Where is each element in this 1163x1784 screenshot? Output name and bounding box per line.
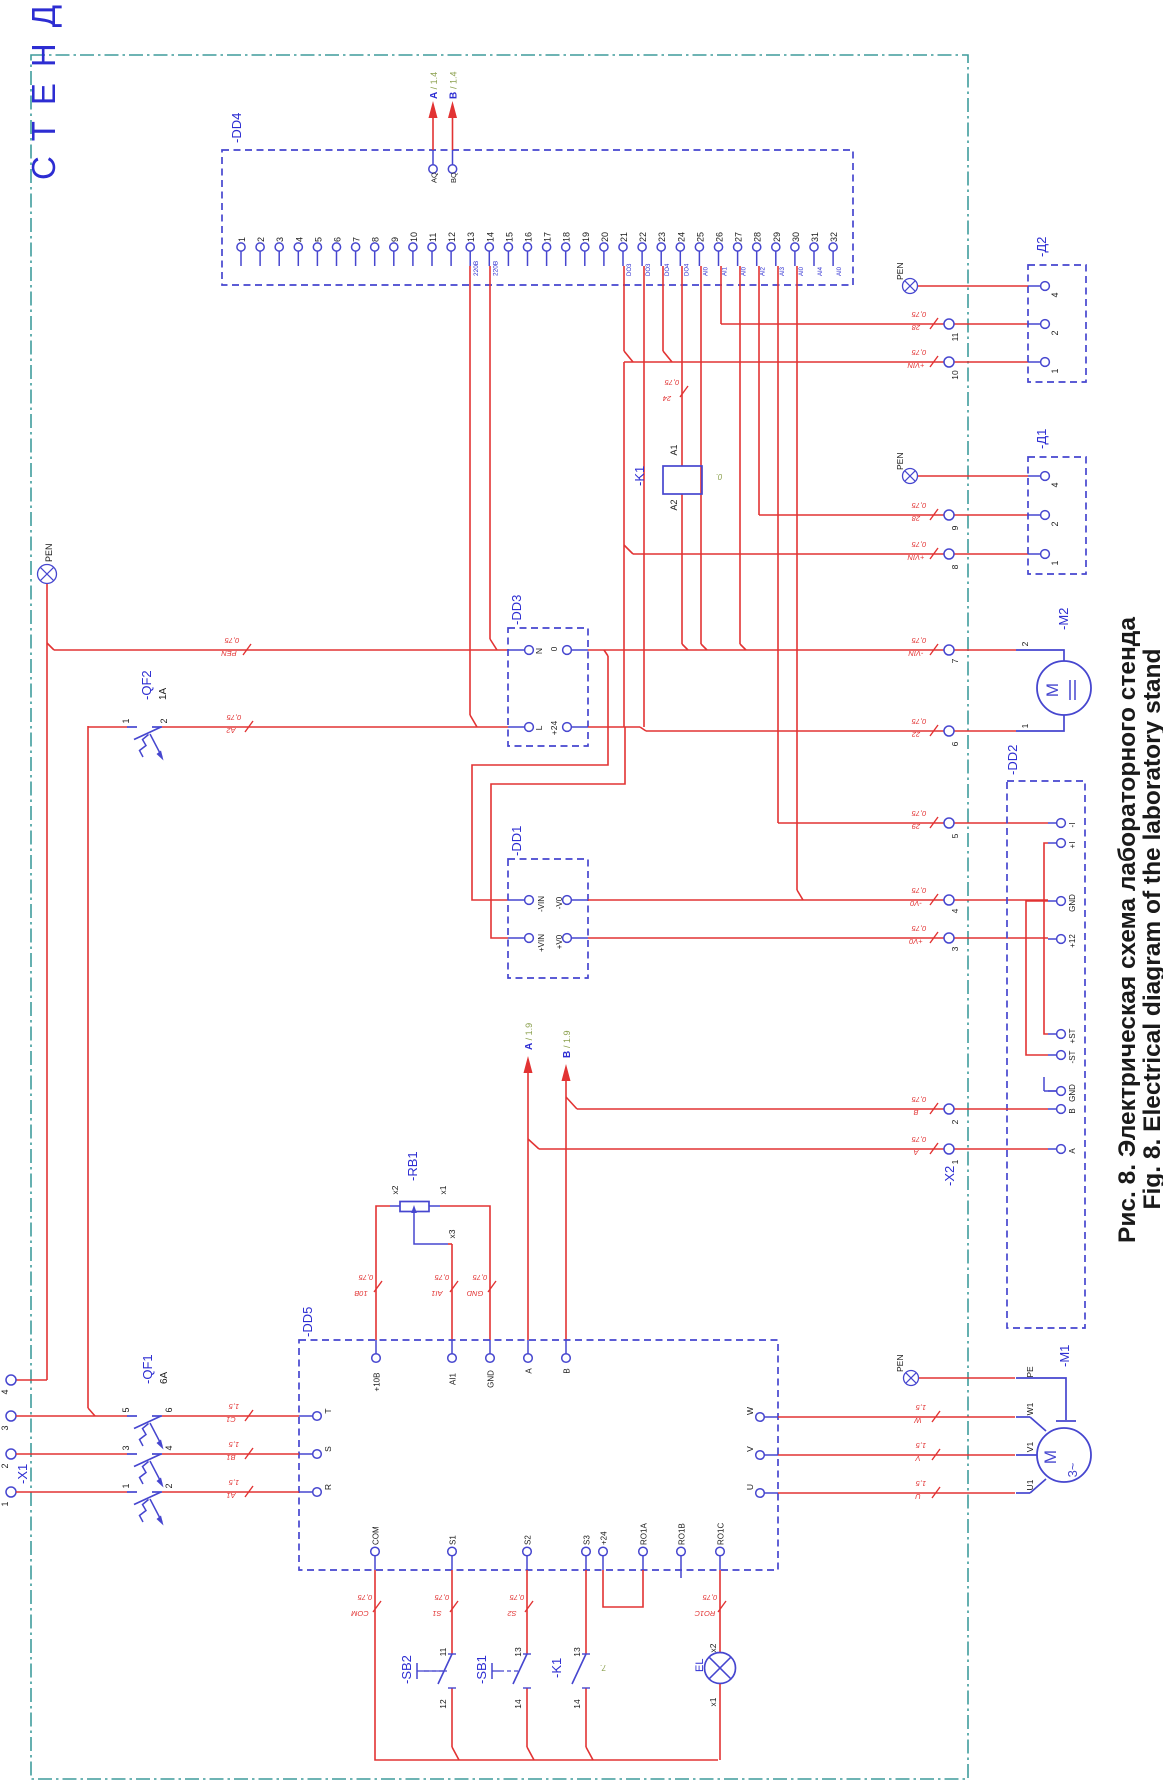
svg-text:B: B <box>1068 1108 1077 1113</box>
svg-text:1,5: 1,5 <box>228 1478 239 1487</box>
svg-text:22: 22 <box>638 232 648 242</box>
svg-text:DO3: DO3 <box>646 263 652 276</box>
svg-text:+V0: +V0 <box>555 934 564 949</box>
svg-text:13: 13 <box>466 232 476 242</box>
svg-text:+V0: +V0 <box>908 937 922 946</box>
svg-text:4: 4 <box>294 237 304 242</box>
svg-text:0,75: 0,75 <box>911 540 926 549</box>
svg-text:0,75: 0,75 <box>911 501 926 510</box>
svg-text:GND: GND <box>466 1289 483 1298</box>
svg-text:-V0: -V0 <box>909 899 922 908</box>
svg-text:28: 28 <box>753 232 763 242</box>
svg-text:B / 1.9: B / 1.9 <box>562 1030 573 1058</box>
svg-text:9: 9 <box>390 237 400 242</box>
svg-text:RO1B: RO1B <box>678 1523 687 1545</box>
svg-text:12: 12 <box>447 232 457 242</box>
svg-text:0,75: 0,75 <box>664 378 679 387</box>
svg-text:7: 7 <box>352 237 362 242</box>
svg-text:PEN: PEN <box>221 649 237 658</box>
svg-text:x2: x2 <box>708 1643 718 1652</box>
svg-text:2: 2 <box>256 237 266 242</box>
svg-text:+24: +24 <box>549 721 559 736</box>
svg-text:AQ: AQ <box>430 172 439 183</box>
svg-text:2: 2 <box>1020 641 1030 646</box>
svg-text:1,5: 1,5 <box>228 1402 239 1411</box>
svg-text:24: 24 <box>676 232 686 242</box>
svg-text:+12: +12 <box>1068 934 1077 948</box>
svg-text:0.: 0. <box>716 472 723 481</box>
svg-text:3: 3 <box>121 1445 131 1450</box>
svg-text:Рис. 8. Электрическая схема ла: Рис. 8. Электрическая схема лабораторног… <box>1114 617 1141 1243</box>
svg-text:0,75: 0,75 <box>702 1593 717 1602</box>
svg-text:S1: S1 <box>432 1609 441 1618</box>
svg-text:3: 3 <box>275 237 285 242</box>
svg-text:1,5: 1,5 <box>228 1440 239 1449</box>
svg-text:32: 32 <box>829 232 839 242</box>
svg-text:0,75: 0,75 <box>911 348 926 357</box>
svg-text:2: 2 <box>164 1483 174 1488</box>
svg-text:A1: A1 <box>669 444 679 455</box>
svg-text:6: 6 <box>950 741 960 746</box>
svg-text:1: 1 <box>237 237 247 242</box>
svg-text:RO1C: RO1C <box>694 1609 715 1618</box>
svg-text:AI1: AI1 <box>449 1372 458 1385</box>
svg-text:0,75: 0,75 <box>434 1593 449 1602</box>
svg-text:21: 21 <box>619 232 629 242</box>
svg-text:3~: 3~ <box>1065 1462 1080 1477</box>
svg-text:0,75: 0,75 <box>911 809 926 818</box>
svg-text:AI2: AI2 <box>761 266 767 276</box>
svg-text:EL: EL <box>694 1659 706 1672</box>
svg-text:AI0: AI0 <box>837 266 843 276</box>
svg-text:5: 5 <box>121 1407 131 1412</box>
svg-text:8: 8 <box>371 237 381 242</box>
svg-text:-QF1: -QF1 <box>140 1354 155 1384</box>
svg-text:13: 13 <box>513 1647 523 1657</box>
svg-text:6: 6 <box>333 237 343 242</box>
svg-text:PEN: PEN <box>895 1355 905 1372</box>
svg-text:A / 1.9: A / 1.9 <box>524 1023 535 1050</box>
svg-text:4: 4 <box>1050 482 1060 487</box>
svg-text:-Д2: -Д2 <box>1034 237 1049 257</box>
svg-text:A: A <box>525 1368 534 1374</box>
svg-text:28: 28 <box>911 514 921 523</box>
svg-text:-QF2: -QF2 <box>139 670 154 700</box>
svg-text:5: 5 <box>313 237 323 242</box>
svg-text:+24: +24 <box>600 1531 609 1545</box>
svg-text:Fig. 8. Electrical diagram of: Fig. 8. Electrical diagram of the labora… <box>1139 649 1163 1210</box>
svg-text:19: 19 <box>581 232 591 242</box>
svg-text:5: 5 <box>950 833 960 838</box>
svg-text:11: 11 <box>950 332 960 341</box>
svg-text:-X1: -X1 <box>15 1464 30 1484</box>
svg-text:C1: C1 <box>226 1415 236 1424</box>
svg-text:+ST: +ST <box>1068 1028 1077 1043</box>
svg-text:11: 11 <box>428 233 438 242</box>
svg-text:0,75: 0,75 <box>911 636 926 645</box>
svg-text:1: 1 <box>1050 560 1060 565</box>
svg-text:0,75: 0,75 <box>509 1593 524 1602</box>
svg-text:GND: GND <box>1068 1084 1077 1102</box>
svg-text:10В: 10В <box>354 1289 367 1298</box>
svg-text:4: 4 <box>164 1445 174 1450</box>
svg-text:0,75: 0,75 <box>226 713 241 722</box>
svg-text:GND: GND <box>487 1370 496 1388</box>
svg-text:A1: A1 <box>226 1491 236 1500</box>
svg-text:V: V <box>745 1446 755 1452</box>
svg-text:AI0: AI0 <box>703 266 709 276</box>
svg-text:-X2: -X2 <box>942 1166 957 1186</box>
svg-text:W1: W1 <box>1025 1402 1035 1415</box>
svg-text:29: 29 <box>911 822 921 831</box>
svg-text:S2: S2 <box>507 1609 517 1618</box>
svg-text:20: 20 <box>600 232 610 242</box>
svg-text:28: 28 <box>911 323 921 332</box>
svg-text:-K1: -K1 <box>549 1658 564 1678</box>
svg-text:8: 8 <box>950 564 960 569</box>
svg-text:AI3: AI3 <box>780 266 786 276</box>
svg-text:x3: x3 <box>447 1229 457 1238</box>
svg-text:7: 7 <box>950 658 960 663</box>
svg-text:AI0: AI0 <box>799 266 805 276</box>
svg-text:0,75: 0,75 <box>224 636 239 645</box>
svg-text:12: 12 <box>438 1699 448 1709</box>
svg-text:DO4: DO4 <box>665 263 671 276</box>
svg-text:+VIN: +VIN <box>907 553 924 562</box>
svg-text:14: 14 <box>513 1699 523 1709</box>
svg-text:B / 1.4: B / 1.4 <box>449 71 460 99</box>
svg-text:10: 10 <box>409 232 419 242</box>
svg-text:-V0: -V0 <box>555 896 564 909</box>
svg-text:-K1: -K1 <box>632 466 647 486</box>
svg-text:x1: x1 <box>708 1697 718 1706</box>
svg-text:А2: А2 <box>226 726 237 735</box>
svg-text:RO1C: RO1C <box>717 1523 726 1545</box>
svg-text:+I: +I <box>1068 842 1077 849</box>
svg-text:-VIN: -VIN <box>908 649 924 658</box>
svg-text:1,5: 1,5 <box>915 1479 926 1488</box>
svg-text:4: 4 <box>950 908 960 913</box>
svg-text:S2: S2 <box>524 1535 533 1545</box>
svg-text:A: A <box>1068 1148 1077 1154</box>
svg-text:14: 14 <box>572 1699 582 1709</box>
svg-text:6: 6 <box>164 1407 174 1412</box>
svg-text:AI4: AI4 <box>818 266 824 276</box>
svg-text:B1: B1 <box>226 1453 235 1462</box>
svg-text:18: 18 <box>562 232 572 242</box>
svg-text:1: 1 <box>0 1501 10 1506</box>
svg-text:B: B <box>563 1368 572 1373</box>
svg-text:AI1: AI1 <box>431 1289 443 1298</box>
svg-text:-SB2: -SB2 <box>399 1655 414 1684</box>
svg-text:PEN: PEN <box>895 263 905 280</box>
svg-text:1: 1 <box>121 1483 131 1488</box>
svg-text:COM: COM <box>351 1609 369 1618</box>
svg-text:T: T <box>323 1408 333 1413</box>
svg-text:26: 26 <box>715 232 725 242</box>
svg-text:2: 2 <box>159 718 169 723</box>
svg-text:29: 29 <box>772 232 782 242</box>
svg-text:RO1A: RO1A <box>640 1523 649 1545</box>
svg-text:PE: PE <box>1025 1366 1035 1378</box>
svg-text:17: 17 <box>543 232 553 242</box>
svg-text:0,75: 0,75 <box>357 1593 372 1602</box>
svg-text:+VIN: +VIN <box>907 361 924 370</box>
svg-text:A / 1.4: A / 1.4 <box>429 72 440 99</box>
svg-text:-DD2: -DD2 <box>1005 745 1020 775</box>
svg-text:-RB1: -RB1 <box>405 1151 420 1181</box>
svg-text:-Д1: -Д1 <box>1034 429 1049 449</box>
svg-text:V1: V1 <box>1025 1442 1035 1453</box>
svg-text:27: 27 <box>734 232 744 242</box>
svg-text:30: 30 <box>791 232 801 242</box>
svg-text:220В: 220В <box>492 261 499 276</box>
svg-text:11: 11 <box>438 1647 448 1656</box>
svg-text:22: 22 <box>911 730 921 739</box>
svg-text:1: 1 <box>950 1159 960 1164</box>
svg-text:DO3: DO3 <box>627 263 633 276</box>
svg-text:1: 1 <box>1050 368 1060 373</box>
svg-text:AI0: AI0 <box>742 266 748 276</box>
svg-text:0,75: 0,75 <box>472 1273 487 1282</box>
svg-text:3: 3 <box>950 946 960 951</box>
svg-text:x2: x2 <box>390 1185 400 1194</box>
svg-text:0,75: 0,75 <box>434 1273 449 1282</box>
svg-text:-DD1: -DD1 <box>509 826 524 856</box>
svg-text:1: 1 <box>1020 723 1030 728</box>
svg-text:3: 3 <box>0 1425 10 1430</box>
svg-text:+VIN: +VIN <box>537 934 546 952</box>
svg-text:0,75: 0,75 <box>911 886 926 895</box>
svg-text:2: 2 <box>0 1463 10 1468</box>
svg-text:25: 25 <box>695 232 705 242</box>
svg-text:-DD3: -DD3 <box>509 595 524 625</box>
svg-text:-M2: -M2 <box>1056 608 1071 630</box>
svg-text:24: 24 <box>663 394 672 403</box>
svg-text:-DD4: -DD4 <box>229 113 244 143</box>
svg-text:U: U <box>745 1484 755 1490</box>
svg-text:S1: S1 <box>449 1535 458 1545</box>
svg-text:0: 0 <box>549 646 559 651</box>
svg-text:GND: GND <box>1068 894 1077 912</box>
svg-text:4: 4 <box>0 1389 10 1394</box>
svg-text:1,5: 1,5 <box>915 1441 926 1450</box>
svg-text:AI1: AI1 <box>723 266 729 276</box>
svg-text:2: 2 <box>1050 521 1060 526</box>
svg-text:1А: 1А <box>158 687 169 700</box>
svg-text:0,75: 0,75 <box>358 1273 373 1282</box>
svg-text:U: U <box>915 1492 921 1501</box>
svg-text:+10В: +10В <box>373 1373 382 1392</box>
svg-text:PEN: PEN <box>895 453 905 470</box>
svg-text:0,75: 0,75 <box>911 310 926 319</box>
svg-text:0,75: 0,75 <box>911 1135 926 1144</box>
svg-text:13: 13 <box>572 1647 582 1657</box>
svg-text:23: 23 <box>657 232 667 242</box>
svg-text:16: 16 <box>524 232 534 242</box>
svg-text:0,75: 0,75 <box>911 717 926 726</box>
svg-text:0,75: 0,75 <box>911 1095 926 1104</box>
svg-text:S: S <box>323 1446 333 1452</box>
svg-text:PEN: PEN <box>44 543 54 562</box>
svg-text:6А: 6А <box>159 1371 170 1384</box>
svg-text:4: 4 <box>1050 292 1060 297</box>
svg-text:2: 2 <box>1050 330 1060 335</box>
svg-text:М: М <box>1043 683 1062 697</box>
svg-text:М: М <box>1041 1450 1060 1464</box>
svg-text:2: 2 <box>950 1119 960 1124</box>
svg-text:A2: A2 <box>669 499 679 510</box>
svg-text:0,75: 0,75 <box>911 924 926 933</box>
svg-text:1: 1 <box>121 718 131 723</box>
svg-text:1,5: 1,5 <box>915 1403 926 1412</box>
svg-text:B: B <box>913 1108 918 1117</box>
svg-text:СТЕНД: СТЕНД <box>25 0 62 180</box>
svg-text:S3: S3 <box>583 1535 592 1545</box>
svg-text:N: N <box>534 648 544 654</box>
svg-text:x1: x1 <box>438 1185 448 1194</box>
svg-text:-SB1: -SB1 <box>474 1655 489 1684</box>
svg-text:-M1: -M1 <box>1057 1345 1072 1367</box>
svg-text:10: 10 <box>950 370 960 380</box>
svg-text:15: 15 <box>504 232 514 242</box>
svg-text:220В: 220В <box>473 261 480 276</box>
svg-text:14: 14 <box>485 232 495 242</box>
svg-text:DO4: DO4 <box>684 263 690 276</box>
svg-text:-VIN: -VIN <box>537 896 546 912</box>
svg-text:BQ: BQ <box>449 172 458 183</box>
svg-text:W: W <box>914 1416 922 1425</box>
svg-text:9: 9 <box>950 525 960 530</box>
svg-text:31: 31 <box>810 232 820 242</box>
svg-text:U1: U1 <box>1025 1479 1035 1490</box>
svg-text:-I: -I <box>1068 823 1077 828</box>
svg-text:7.: 7. <box>600 1663 607 1672</box>
svg-text:-DD5: -DD5 <box>300 1307 315 1337</box>
svg-text:A: A <box>913 1148 919 1157</box>
svg-text:L: L <box>534 725 544 730</box>
svg-text:COM: COM <box>372 1526 381 1545</box>
svg-text:R: R <box>323 1484 333 1490</box>
svg-text:-ST: -ST <box>1068 1050 1077 1063</box>
svg-text:W: W <box>745 1407 755 1415</box>
